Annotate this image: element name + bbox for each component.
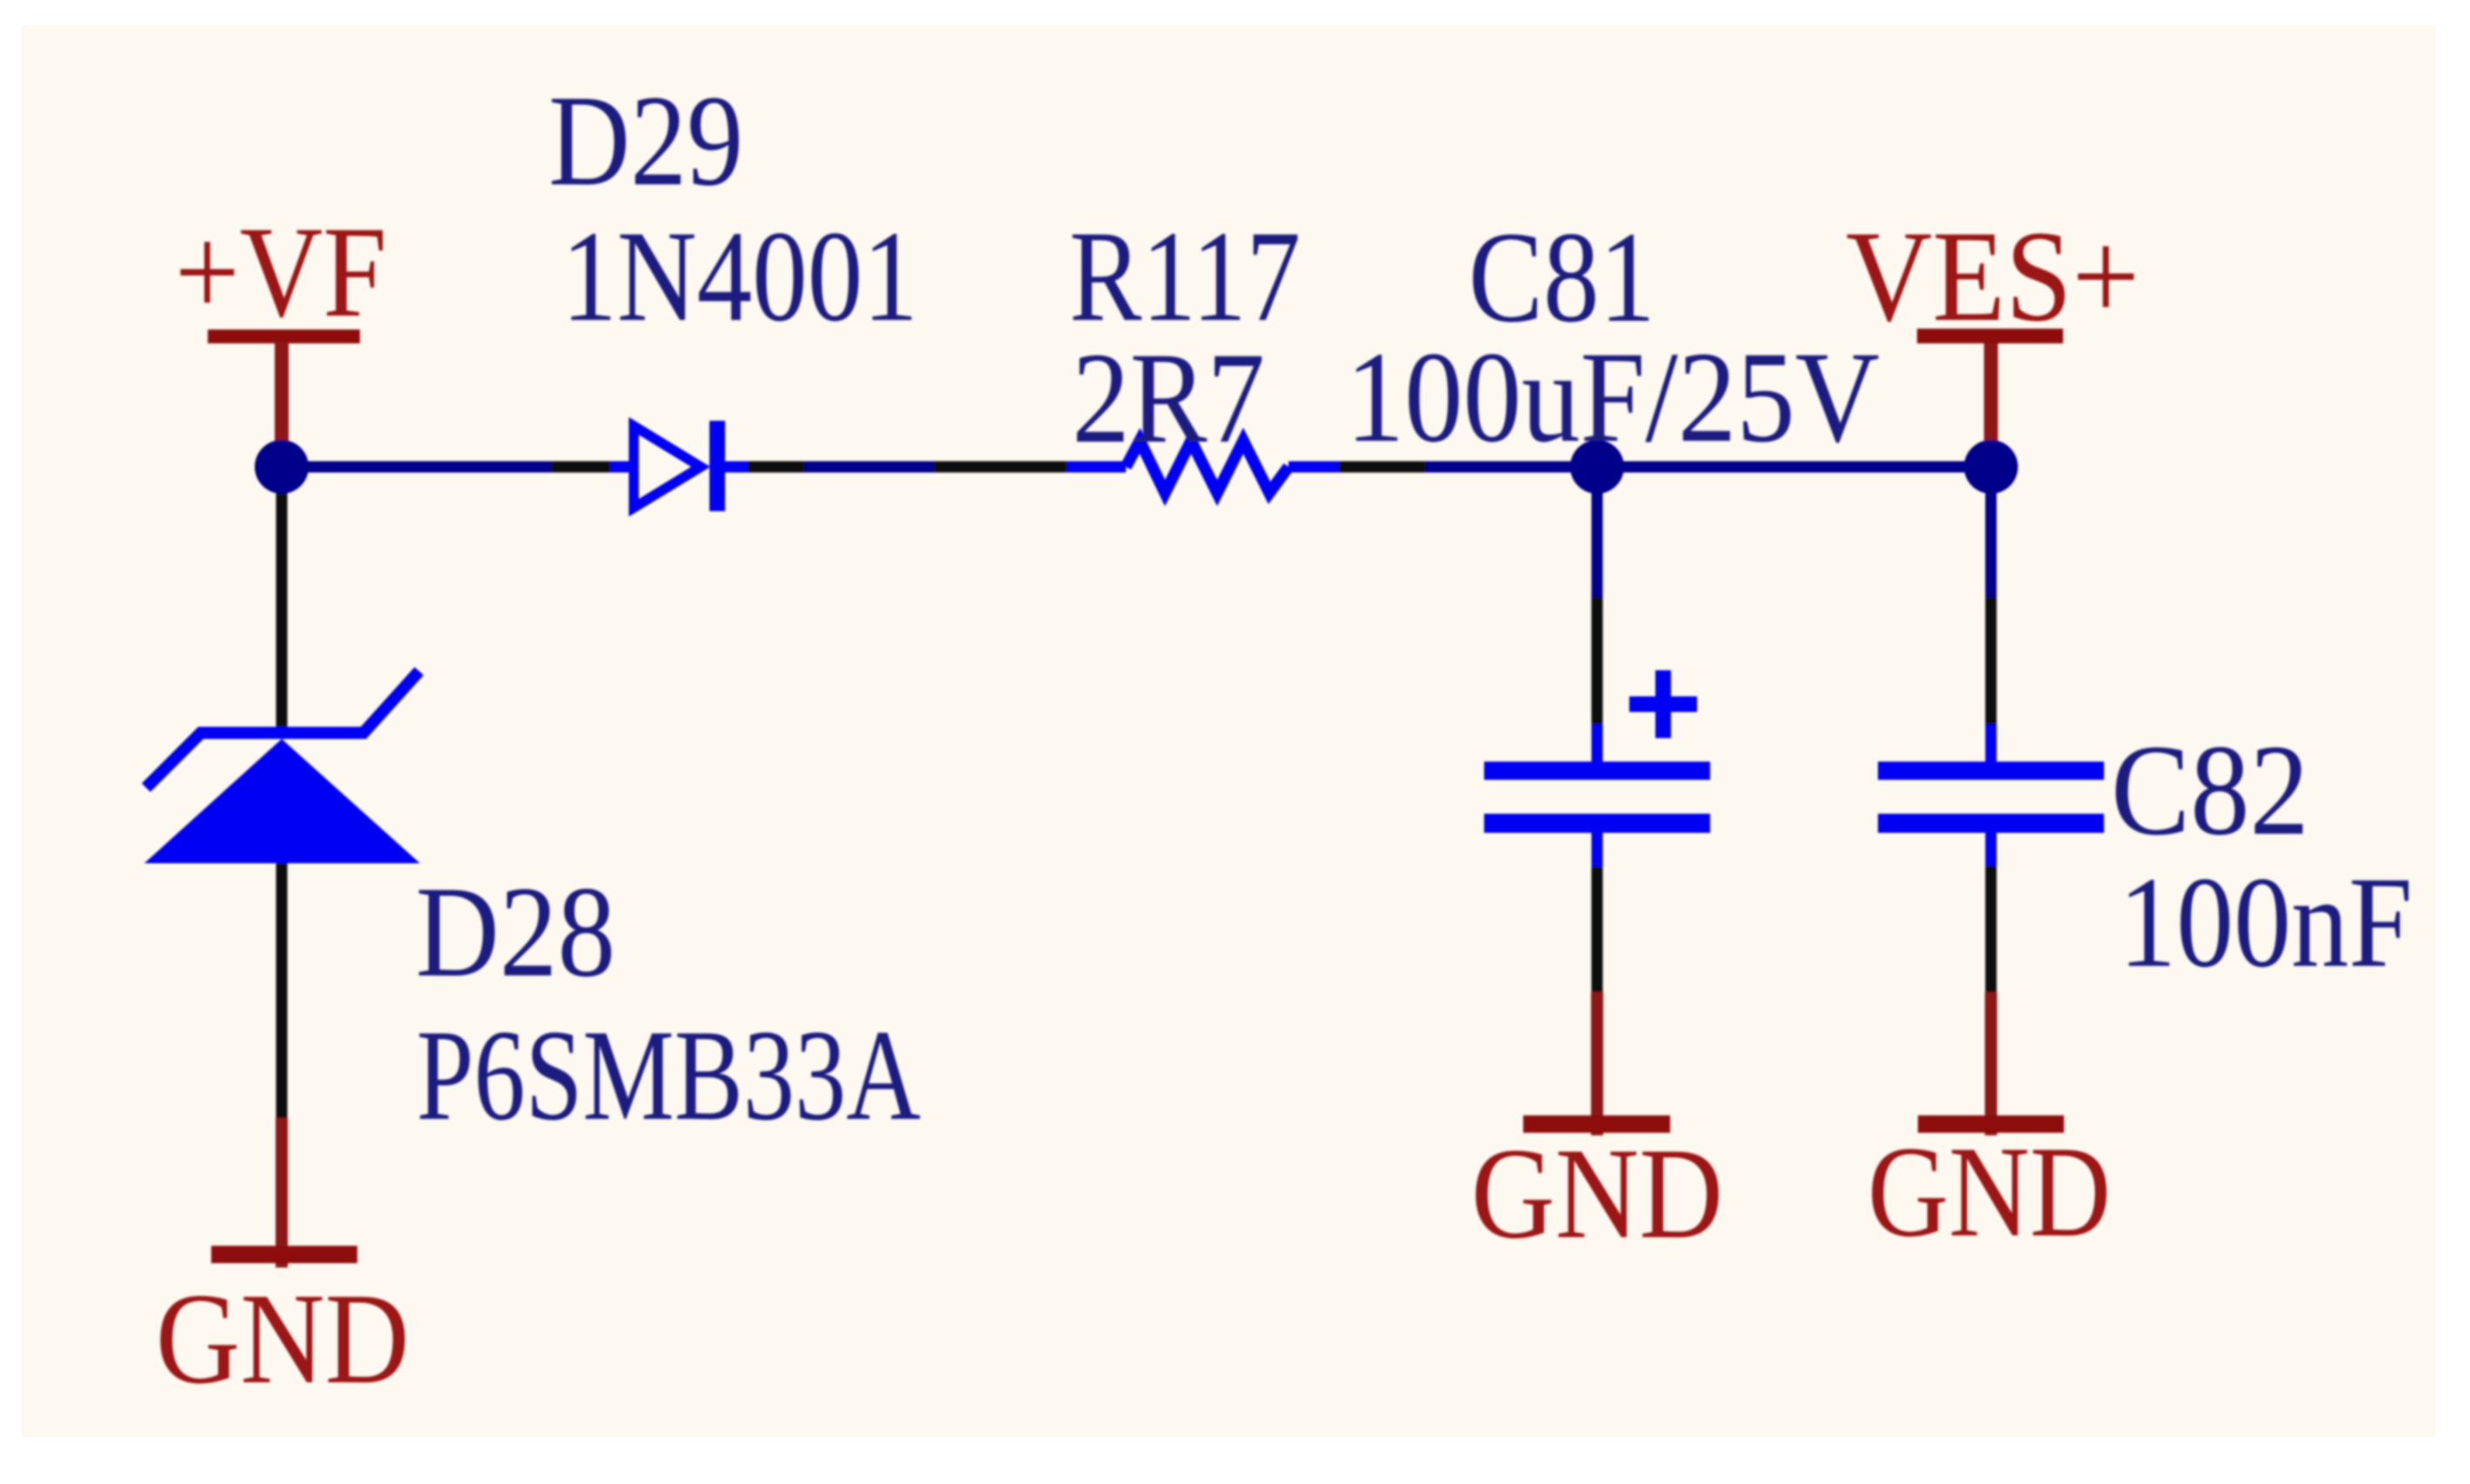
wire navy segment to node B and node C [1426, 462, 1991, 473]
wire black segment before diode [551, 462, 610, 473]
wire black segment after diode [748, 462, 804, 473]
wire black segment below C81 [1592, 867, 1603, 992]
power bar VES+ [1917, 329, 2063, 343]
wire black segment after resistor [1339, 462, 1426, 473]
zener D28 filled triangle [144, 739, 420, 863]
pin stub diode D29 cathode [725, 462, 748, 473]
capacitor C82 top plate [1878, 762, 2104, 780]
diode D29 cathode bar [709, 421, 725, 511]
zener D28 cathode bar with bent wings [146, 671, 419, 788]
svg-text:2R7: 2R7 [1072, 326, 1265, 470]
svg-text:C82: C82 [2111, 718, 2309, 862]
svg-text:100uF/25V: 100uF/25V [1346, 325, 1880, 469]
svg-text:1N4001: 1N4001 [562, 204, 918, 349]
pin stub C82 top [1986, 724, 1997, 763]
svg-text:GND: GND [156, 1267, 409, 1411]
wire stem from VES+ bar to node C [1984, 343, 1998, 448]
wire black segment before resistor [934, 462, 1067, 473]
wire node A to diode (navy) [282, 462, 551, 473]
pin stub resistor R117 right [1288, 462, 1339, 473]
junction node C [1964, 440, 2018, 494]
wire navy segment node B down [1592, 487, 1603, 597]
resistor R117 zigzag body [1126, 441, 1288, 493]
junction node B [1570, 440, 1624, 494]
power bar +VF [208, 329, 360, 343]
wire black segment below zener [276, 863, 288, 1118]
diode D29 triangle [634, 426, 701, 508]
svg-text:100nF: 100nF [2119, 850, 2413, 995]
pin stub C81 bottom [1592, 833, 1603, 867]
capacitor C81 top plate [1484, 762, 1710, 780]
capacitor C81 bottom plate [1484, 814, 1710, 833]
svg-text:D29: D29 [549, 69, 743, 213]
ground bar left [211, 1246, 357, 1263]
pin stub C81 top [1592, 724, 1603, 763]
wire black segment node A down to zener [276, 487, 288, 739]
svg-text:GND: GND [1867, 1120, 2111, 1264]
wire red segment to right ground [1985, 992, 1997, 1135]
ground bar right [1918, 1115, 2064, 1133]
wire black segment above C81 [1592, 597, 1603, 724]
polarity plus sign of C81 [1629, 670, 1697, 738]
wire black segment above C82 [1986, 597, 1997, 724]
junction node A [255, 440, 309, 494]
wire red segment to left ground [276, 1118, 288, 1268]
wire red segment to middle ground [1591, 992, 1603, 1135]
pin stub resistor R117 left [1067, 462, 1126, 473]
svg-text:VES+: VES+ [1846, 204, 2140, 349]
wire navy segment diode to resistor [804, 462, 934, 473]
svg-text:P6SMB33A: P6SMB33A [416, 1003, 921, 1148]
pin stub diode D29 anode [610, 462, 635, 473]
svg-text:+VF: +VF [175, 200, 387, 344]
svg-text:D28: D28 [416, 860, 616, 1004]
ground bar middle [1523, 1115, 1670, 1133]
wire black segment below C82 [1986, 866, 1997, 992]
svg-text:GND: GND [1471, 1121, 1723, 1266]
capacitor C82 bottom plate [1878, 814, 2104, 833]
pin stub C82 bottom [1986, 833, 1997, 866]
wire navy segment node C down [1986, 487, 1997, 597]
wire stem from +VF bar to node A [275, 342, 289, 448]
